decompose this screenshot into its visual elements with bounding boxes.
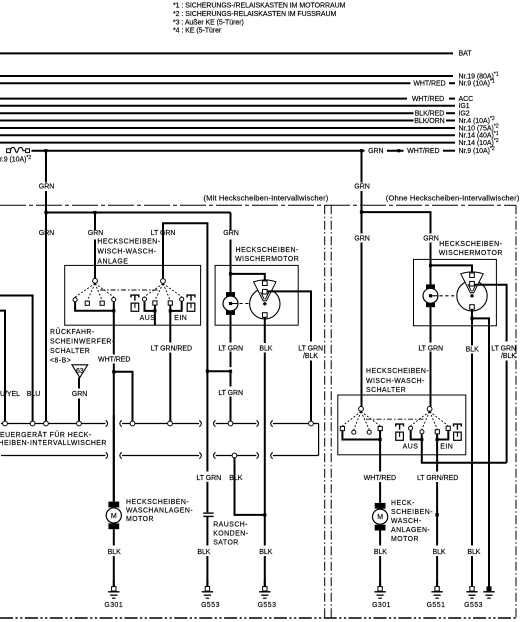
svg-text:Nr.4 (10A)*2: Nr.4 (10A)*2 (459, 116, 495, 125)
wire bus line ACC (0, 98, 407, 100)
svg-text:GRN: GRN (39, 230, 54, 237)
mechanical link dashes (Mit switch) (100, 289, 158, 291)
wire WHT/RED branch to control unit (114, 372, 133, 422)
switch box HECKSCHEIBEN-WISCH-WASCH-ANLAGE (65, 265, 201, 325)
control unit right edge (318, 424, 320, 456)
svg-text:G301: G301 (372, 602, 391, 609)
svg-text:BLK: BLK (374, 549, 387, 556)
wire BLK from control unit bottom terminal (235, 458, 265, 515)
rotary switch 1 (wash) Mit (93, 278, 98, 283)
connector T symbol right (Ohne) (454, 424, 462, 426)
svg-text:HECKSCHEIBEN-: HECKSCHEIBEN- (236, 247, 299, 254)
wire park NC to LT GRN/BLK (Ohne) (474, 285, 506, 342)
svg-text:LT GRN: LT GRN (418, 345, 443, 352)
svg-text:HECKSCHEIBEN-: HECKSCHEIBEN- (366, 368, 429, 375)
wire bus line Nr.9 (10A)*2 (32, 150, 365, 152)
svg-text:SCHEINWERFER-: SCHEINWERFER- (50, 339, 115, 346)
svg-text:WASCHANLAGEN-: WASCHANLAGEN- (126, 508, 193, 515)
svg-text:LT GRN: LT GRN (298, 345, 323, 352)
svg-text:*3 : Außer KE (5-Türer): *3 : Außer KE (5-Türer) (173, 19, 244, 26)
svg-text:SCHALTER: SCHALTER (366, 387, 406, 394)
wiper motor box HECKSCHEIBEN-WISCHERMOTOR (Mit) (215, 265, 298, 325)
rotary switch 2 (wipe AUS/EIN) Mit (161, 279, 166, 284)
junction WHT/RED branch (112, 370, 115, 373)
wire LT GRN from wiper switch up-over (Mit) (163, 223, 207, 471)
svg-text:WASCH-: WASCH- (391, 518, 422, 525)
junction GRN in motor box (Mit) (230, 274, 232, 293)
svg-text:U/YEL: U/YEL (0, 391, 20, 398)
wire LT GRN/RED EIN down (Ohne) (436, 440, 438, 472)
svg-text:ACC: ACC (459, 96, 474, 103)
motor symbol (Mit wiper) (226, 292, 235, 296)
svg-text:WHT/RED: WHT/RED (364, 475, 396, 482)
washer motor HECKSCHEIBEN-WASCHANLAGEN-MOTOR (Mit) (108, 502, 119, 508)
svg-text:BLK: BLK (229, 475, 242, 482)
park switch cam (Ohne) (457, 281, 487, 311)
svg-text:*1 : SICHERUNGS-/RELAISKASTEN: *1 : SICHERUNGS-/RELAISKASTEN IM MOTORRA… (173, 3, 346, 10)
wire bus line Nr.4 (10A)*2 (0, 120, 414, 122)
svg-text:Nr.9 (10A)*1: Nr.9 (10A)*1 (459, 79, 495, 88)
svg-text:BLK: BLK (108, 549, 121, 556)
svg-text:WHT/RED: WHT/RED (98, 357, 130, 364)
wire bracket EIN (Ohne) (437, 431, 448, 440)
svg-text:GRN: GRN (223, 230, 238, 237)
wire LT GRN/RED EIN to control unit (Mit) (169, 311, 171, 343)
wire bus line Nr.14 (10A)*2 (0, 142, 455, 144)
wire LT GRN motor to wipe switch (Ohne) (430, 307, 432, 343)
svg-text:WHT/RED: WHT/RED (407, 148, 439, 155)
svg-text:RAUSCH-: RAUSCH- (213, 522, 248, 529)
svg-text:MOTOR: MOTOR (391, 536, 419, 543)
wire BLK park bottom (Ohne) (471, 310, 473, 346)
wire BLK wiper motor ground (Mit) (264, 421, 266, 546)
motor symbol (Ohne wiper) (426, 284, 435, 288)
junction splice GRN/WHT-RED on Nr.9*2 line (397, 149, 400, 152)
svg-text:BLK/RED: BLK/RED (415, 111, 445, 118)
wire park NC contact to LT GRN/BLK (Mit) (267, 291, 311, 341)
border ohne section right (515, 205, 517, 618)
svg-text:(Ohne Heckscheiben-Intervallwi: (Ohne Heckscheiben-Intervallwischer) (386, 193, 520, 202)
wire GRN right vertical (Ohne) (361, 151, 363, 183)
control unit STEUERGERAET box top row (1, 423, 105, 425)
svg-text:HECKSCHEIBEN-: HECKSCHEIBEN- (97, 239, 160, 246)
svg-text:(Mit Heckscheiben-Intervallwis: (Mit Heckscheiben-Intervallwischer) (203, 193, 328, 202)
svg-text:*4 : KE (5-Türer: *4 : KE (5-Türer (173, 28, 222, 35)
svg-text:ANLAGEN-: ANLAGEN- (391, 527, 430, 534)
note list (fuse box legend) (173, 3, 346, 35)
control unit terminal bottom row (232, 453, 237, 458)
wire GRN horizontal distribution (Mit) (45, 212, 231, 214)
junction bridge LT GRN (Mit) (207, 370, 230, 372)
ground G553 (wiper motor Mit) (264, 580, 266, 587)
ground G301 (Mit) (113, 580, 115, 587)
svg-text:G553: G553 (464, 602, 483, 609)
svg-text:EIN: EIN (440, 443, 453, 450)
svg-text:HECKSCHEIBEN-: HECKSCHEIBEN- (439, 241, 502, 248)
svg-text:GRN: GRN (72, 391, 87, 398)
svg-text:M: M (377, 514, 383, 521)
wire BLK capacitor to ground (206, 516, 208, 545)
svg-text:SATOR: SATOR (213, 540, 239, 547)
svg-text:/BLK: /BLK (501, 353, 516, 360)
wire BLK park cam bottom down (Mit) (264, 317, 266, 343)
ground G301 (Ohne) (379, 580, 381, 587)
svg-text:M: M (111, 513, 117, 520)
wire feed to park cam (Ohne) (431, 265, 473, 273)
svg-text:GRN: GRN (39, 183, 54, 190)
wire bus line Nr.10 (75A)*2 (0, 127, 455, 129)
section separator dashed line (0, 204, 516, 206)
wire AUS to park link (Ohne) (422, 440, 507, 463)
svg-text:GRN: GRN (423, 235, 438, 242)
svg-text:BLK: BLK (467, 549, 480, 556)
svg-text:LT GRN/RED: LT GRN/RED (417, 475, 458, 482)
svg-text:Nr.14 (40A)*1: Nr.14 (40A)*1 (459, 131, 499, 140)
wire bus line BAT (0, 52, 453, 54)
svg-text:*2 : SICHERUNGS-RELAISKASTEN I: *2 : SICHERUNGS-RELAISKASTEN IM FUSSRAUM (173, 11, 337, 18)
wire bus line Nr.19 (80A)*1 (0, 75, 453, 77)
wire WHT/RED through control unit (113, 415, 115, 502)
wire BLK washer motor ground (Ohne) (379, 531, 381, 546)
svg-text:Nr.9 (10A)*2: Nr.9 (10A)*2 (459, 146, 495, 155)
wire bracket AUS (Mit) (145, 301, 155, 311)
svg-text:ANLAGE: ANLAGE (97, 259, 128, 266)
washer motor HECK-SCHEIBEN-WASCH-ANLAGEN-MOTOR (Ohne) (375, 503, 386, 509)
svg-text:G553: G553 (258, 602, 277, 609)
svg-text:WISCH-WASCH-: WISCH-WASCH- (366, 378, 425, 385)
wire bracket AUS (Ohne) (411, 431, 422, 440)
junction GRN in motor box (Ohne) (429, 264, 432, 267)
junction on Nr.9*2 line at left GRN drop (44, 149, 47, 152)
svg-text:LT GRN: LT GRN (196, 475, 221, 482)
svg-text:GRN: GRN (88, 230, 103, 237)
connector T symbol left (Mit) (131, 295, 139, 297)
svg-text:HECKSCHEIBEN-: HECKSCHEIBEN- (126, 499, 189, 506)
border mit section right (324, 205, 326, 618)
wire GRN down to wiper motor (Mit) (230, 213, 232, 231)
border ohne section left (330, 205, 332, 618)
svg-text:WHT/RED: WHT/RED (412, 96, 444, 103)
svg-text:BLK: BLK (259, 549, 272, 556)
control unit bottom row (1, 455, 105, 457)
wire GRN from triangle to control unit (78, 378, 80, 389)
wiper motor box HECKSCHEIBEN-WISCHERMOTOR (Ohne) (414, 259, 497, 325)
svg-text:BAT: BAT (459, 51, 473, 58)
svg-text:SCHEIBEN-: SCHEIBEN- (391, 509, 433, 516)
svg-text:AUS: AUS (140, 315, 156, 322)
connector triangle 63 (back-up light switch) (72, 365, 88, 378)
wire BLK washer motor ground (Mit) (113, 529, 115, 545)
control unit terminals top row (3, 421, 8, 426)
wire GRN to wash switch pivot (94, 213, 96, 231)
svg-text:GRN: GRN (354, 235, 369, 242)
svg-text:EUERGERÄT FÜR HECK-: EUERGERÄT FÜR HECK- (0, 431, 92, 439)
wire WHT/RED wash switch to washer motor (Ohne) (379, 440, 381, 472)
ground G553 (capacitor) (206, 580, 208, 587)
wire bracket EIN (Mit) (170, 301, 181, 311)
svg-text:GRN: GRN (368, 148, 383, 155)
junction on Nr.9*2 line at right GRN drop (360, 149, 363, 152)
wire GRN branch to wiper motor (Ohne) (362, 212, 431, 233)
svg-text:BLK: BLK (197, 549, 210, 556)
wire WHT/RED wash switch to washer motor (Mit) (113, 311, 115, 355)
svg-text:G551: G551 (427, 602, 446, 609)
ground G551 (436, 580, 438, 587)
svg-text:RÜCKFAHR-: RÜCKFAHR- (50, 328, 95, 336)
wire LT GRN motor brush down (Mit) (230, 315, 232, 343)
dashed motor-cam link (Mit) (240, 303, 250, 305)
wire bracket wash switch (75, 302, 114, 311)
wire BLU from left edge (0, 296, 33, 422)
wire BLU/YEL from left edge (0, 311, 5, 422)
wire LT GRN through control unit to capacitor (206, 482, 208, 513)
svg-text:WISCH-WASCH-: WISCH-WASCH- (97, 249, 156, 256)
svg-text:BLU: BLU (27, 391, 40, 398)
svg-text:GRN: GRN (354, 183, 369, 190)
svg-text:G553: G553 (201, 602, 220, 609)
capacitor RAUSCHKONDENSATOR (203, 512, 213, 514)
switch box HECKSCHEIBEN-WISCH-WASCH-SCHALTER (Ohne) (338, 395, 466, 455)
svg-text:LT GRN: LT GRN (218, 390, 243, 397)
svg-text:BLK: BLK (466, 346, 479, 353)
border bottom (0, 617, 516, 619)
splice dot LT GRN/RED-BLK (435, 513, 438, 516)
svg-text:HEIBEN-INTERVALLWISCHER: HEIBEN-INTERVALLWISCHER (0, 440, 107, 447)
junction GRN (Ohne) (360, 211, 363, 214)
svg-text:LT GRN: LT GRN (218, 345, 243, 352)
wire bus line Nr.14 (40A)*1 (0, 134, 455, 136)
svg-text:<8-B>: <8-B> (50, 358, 71, 365)
svg-text:EIN: EIN (174, 315, 187, 322)
rotary switch 2 (wipe) Ohne (427, 407, 432, 412)
dashed motor-cam link (Ohne) (440, 295, 457, 297)
svg-text:BLK: BLK (259, 345, 272, 352)
wire BLK branch to body ground (472, 318, 489, 584)
wire bus line Nr.9 (10A)*1 (0, 82, 411, 84)
wire GRN left vertical from fuse to control unit (45, 151, 47, 183)
svg-text:WHT/RED: WHT/RED (413, 81, 445, 88)
svg-text:KONDEN-: KONDEN- (213, 531, 248, 538)
svg-text:BLK/ORN: BLK/ORN (414, 118, 444, 125)
svg-text:63: 63 (76, 368, 84, 375)
ground body (filled) (488, 585, 490, 587)
svg-text:LT GRN: LT GRN (151, 230, 176, 237)
junction BLK branch (Ohne) (470, 317, 473, 320)
park switch cam (Mit) (250, 289, 280, 319)
connector T symbol left (Ohne) (396, 424, 404, 426)
svg-text:LT GRN: LT GRN (491, 345, 516, 352)
svg-text:BLK: BLK (432, 549, 445, 556)
connector T symbol right (Mit) (187, 295, 195, 297)
svg-text:SCHALTER: SCHALTER (50, 348, 90, 355)
mechanical link dashes (Ohne switch) (366, 418, 424, 420)
svg-text:IG1: IG1 (459, 103, 470, 110)
wire bracket wash switch (Ohne) (342, 431, 380, 440)
wire AUS stub to box edge (154, 311, 156, 325)
rotary switch 1 (wash) Ohne (359, 407, 364, 412)
ground G553 (Ohne) (471, 580, 473, 587)
svg-text:AUS: AUS (403, 443, 419, 450)
svg-text:WISCHERMOTOR: WISCHERMOTOR (235, 256, 299, 263)
svg-text:Nr.10 (75A)*2: Nr.10 (75A)*2 (459, 124, 499, 133)
svg-text:WISCHERMOTOR: WISCHERMOTOR (439, 250, 503, 257)
svg-text:HECK-: HECK- (391, 500, 415, 507)
svg-text:MOTOR: MOTOR (126, 516, 154, 523)
svg-text:/BLK: /BLK (303, 353, 318, 360)
svg-text:LT GRN/RED: LT GRN/RED (151, 345, 192, 352)
svg-text:IG2: IG2 (459, 111, 470, 118)
wire bus line IG1 (0, 105, 455, 107)
wire feed to park cam (Mit) (231, 274, 265, 281)
svg-text:G301: G301 (104, 602, 123, 609)
wire bus line IG2 (0, 112, 414, 114)
fuse Nr.9 (10A) *2 (10, 147, 25, 152)
